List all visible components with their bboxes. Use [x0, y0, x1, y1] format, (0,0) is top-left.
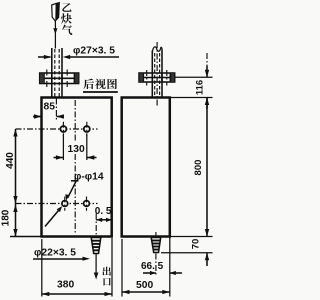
dimension 800 — [206, 98, 208, 237]
svg-text:130: 130 — [68, 144, 85, 155]
svg-text:380: 380 — [57, 280, 74, 291]
outlet pipe (left view, threaded) — [91, 238, 101, 254]
svg-text:440: 440 — [5, 152, 16, 169]
extension: tank bottom to left — [10, 236, 42, 238]
bolt hole lower-right — [84, 201, 90, 207]
svg-text:500: 500 — [136, 280, 153, 291]
label 乙炔气 (acetylene gas) — [62, 3, 71, 12]
svg-text:0. 5: 0. 5 — [95, 206, 112, 217]
inlet pipe (left view) — [51, 48, 53, 98]
extension: pipe centerline — [55, 99, 57, 122]
flange (left view) — [40, 73, 79, 84]
flow arrow (acetylene inlet symbol) — [52, 3, 60, 21]
bottom extension lines (right view) — [169, 237, 171, 297]
leader lower diagonal — [45, 208, 61, 227]
svg-text:70: 70 — [191, 239, 202, 250]
svg-text:85: 85 — [44, 102, 56, 113]
outlet pipe (right view, threaded) — [151, 238, 161, 253]
lower bolt holes row centerline — [16, 203, 98, 205]
pipe walls through flange — [51, 73, 53, 84]
inlet pipe (right view) with wavy open top — [151, 51, 153, 98]
svg-text:φ22×3. 5: φ22×3. 5 — [34, 248, 76, 259]
left view tank body outline — [42, 98, 112, 237]
outlet flow arrow — [95, 254, 97, 274]
tank vertical centerline — [74, 100, 76, 143]
flange bolts (dash-dot) — [46, 70, 48, 88]
dimension 440 — [15, 129, 17, 204]
bolt hole upper-left — [60, 126, 66, 132]
pipe centerline (right view) — [156, 42, 158, 107]
flange (right view) — [139, 73, 175, 82]
dimension 130 — [62, 135, 64, 161]
upper bolt holes row centerline — [16, 128, 98, 130]
outlet centerline (left view) — [95, 214, 97, 237]
wire: inlet flow line — [54, 21, 56, 49]
label 出口 (outlet) — [102, 267, 110, 276]
right view tank body outline — [122, 98, 170, 237]
right dimension column extension lines — [175, 76, 213, 78]
svg-text:800: 800 — [193, 160, 204, 176]
dimension 380 extensions — [41, 239, 43, 297]
svg-text:66. 5: 66. 5 — [141, 261, 164, 272]
label 后视图 (rear view) — [84, 79, 95, 90]
dimension 180 — [15, 204, 17, 237]
outlet tip centerline tick — [155, 232, 157, 237]
svg-text:φ27×3. 5: φ27×3. 5 — [73, 46, 115, 57]
svg-text:180: 180 — [1, 209, 12, 226]
svg-text:116: 116 — [195, 80, 206, 95]
bolt hole lower-left — [62, 201, 68, 207]
bolt hole upper-right — [84, 126, 90, 132]
dimension 116 — [206, 53, 208, 66]
